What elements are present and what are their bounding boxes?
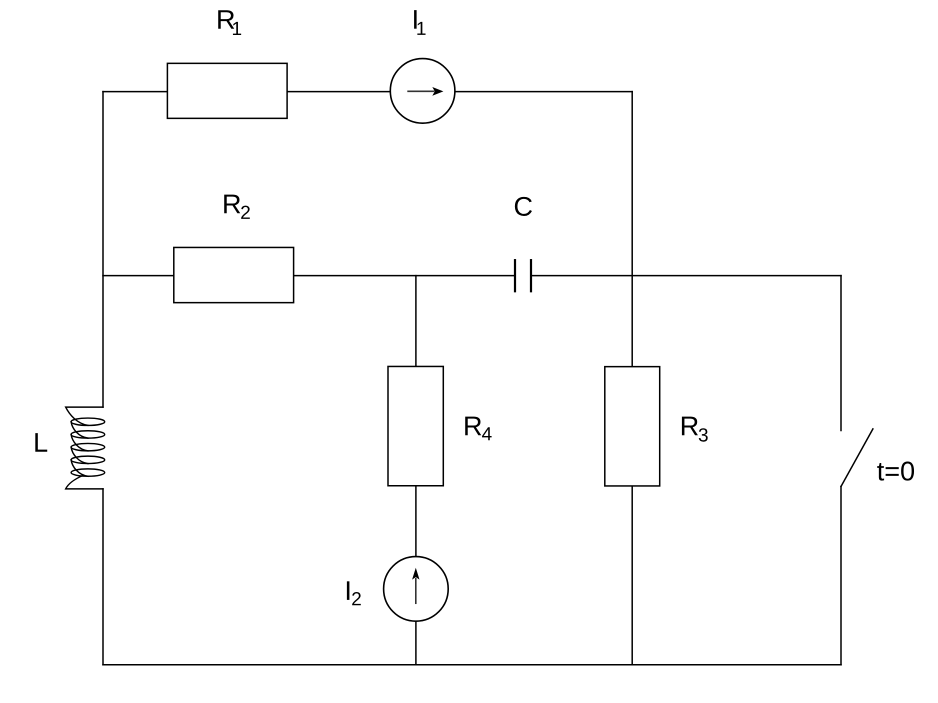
label R4 — [465, 417, 481, 436]
resistor R1 — [167, 63, 287, 118]
wire switch lower vertical — [840, 486, 842, 664]
label R3 — [682, 417, 698, 436]
label C — [515, 197, 532, 216]
wire R3 bottom to bottom wire — [631, 486, 633, 665]
wire switch upper vertical — [840, 276, 842, 431]
wire R1 to I1 — [287, 91, 390, 93]
wire left vertical lower (inductor to bottom wire) — [102, 489, 104, 665]
label I1 — [414, 10, 417, 29]
wire R2 to capacitor — [294, 275, 515, 277]
capacitor C right plate — [530, 260, 532, 291]
inductor L coil — [66, 407, 105, 489]
resistor R4 — [388, 366, 443, 485]
wire capacitor to right vertical — [531, 275, 841, 277]
label t=0 — [877, 462, 914, 481]
current source I1 circle — [390, 59, 455, 124]
wire top-left horizontal (left node to R1) — [103, 91, 167, 93]
label R2 — [224, 195, 240, 214]
wire right-upper vertical (top wire down through middle wire to R3) — [631, 92, 633, 367]
label I2 — [347, 581, 350, 600]
capacitor C left plate — [514, 260, 516, 291]
resistor R2 — [174, 247, 294, 302]
wire left vertical upper (top wire down to inductor) — [102, 92, 104, 408]
current source I1 arrow — [407, 87, 443, 96]
label R1 — [218, 10, 234, 29]
current source I2 arrow — [412, 568, 419, 604]
current source I2 circle — [384, 557, 449, 622]
switch S1 blade t=0 — [841, 429, 873, 487]
wire R4 branch vertical (middle wire down to R4) — [415, 276, 417, 367]
wire bottom horizontal — [103, 664, 841, 666]
wire R4 bottom to I2 top — [415, 486, 417, 557]
wire I1 to top-right corner — [455, 91, 632, 93]
wire middle horizontal (left node to R2) — [103, 275, 174, 277]
wire I2 bottom to bottom wire — [415, 621, 417, 665]
label L — [35, 433, 47, 452]
resistor R3 — [605, 367, 660, 486]
